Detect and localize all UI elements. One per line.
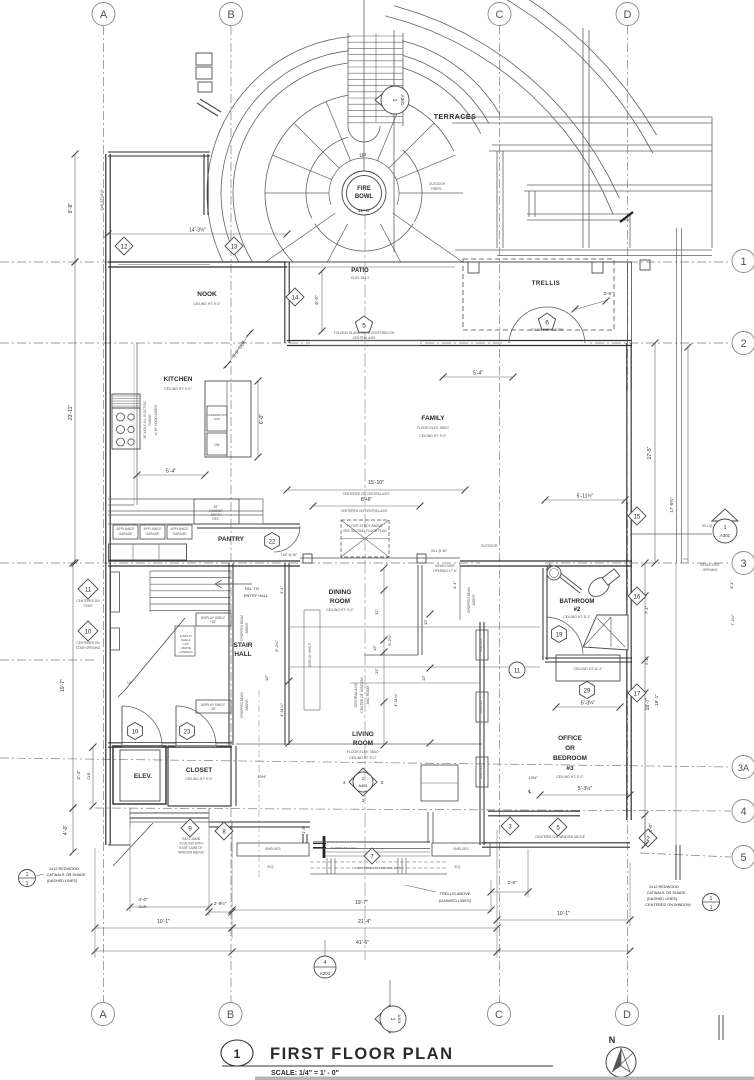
svg-text:TRELLIS ABOVE: TRELLIS ABOVE — [440, 891, 471, 896]
svg-text:6’-0": 6’-0" — [259, 414, 265, 424]
svg-text:CEILING HT: 9'-0": CEILING HT: 9'-0" — [419, 434, 447, 438]
svg-text:5’-11½": 5’-11½" — [577, 493, 594, 500]
svg-text:STAIR OPENING: STAIR OPENING — [76, 646, 101, 650]
svg-text:OPENING: OPENING — [703, 568, 718, 572]
svg-text:w/ 48" HOOD ABOVE: w/ 48" HOOD ABOVE — [154, 405, 158, 436]
svg-text:12": 12" — [421, 674, 426, 680]
svg-text:CLOSET: CLOSET — [186, 767, 212, 774]
svg-text:1: 1 — [724, 525, 727, 531]
svg-text:BOWL: BOWL — [355, 194, 374, 200]
svg-text:29: 29 — [584, 688, 591, 694]
svg-text:D: D — [623, 1009, 631, 1021]
svg-text:CENTRAL AXIS: CENTRAL AXIS — [354, 682, 358, 707]
svg-text:N: N — [609, 1035, 616, 1045]
svg-text:4: 4 — [740, 806, 746, 818]
svg-text:TRELLIS: TRELLIS — [532, 281, 561, 287]
svg-text:5’-4": 5’-4" — [473, 371, 483, 377]
svg-text:OPENING ±7’-6": OPENING ±7’-6" — [433, 569, 457, 573]
svg-text:4’-0": 4’-0" — [648, 823, 653, 833]
svg-text:CATWALK OR SHADE: CATWALK OR SHADE — [647, 891, 686, 895]
svg-text:11: 11 — [85, 587, 92, 593]
svg-text:LIVING: LIVING — [352, 731, 374, 738]
svg-text:SHELVES: SHELVES — [265, 847, 281, 851]
svg-text:1: 1 — [710, 905, 713, 911]
svg-text:SHELVES: SHELVES — [453, 847, 469, 851]
svg-text:5’-4": 5’-4" — [166, 469, 176, 475]
svg-text:A: A — [100, 9, 108, 21]
svg-text:FLOOR ELEV: 585.0': FLOOR ELEV: 585.0' — [417, 426, 450, 430]
svg-text:7’-1": 7’-1" — [644, 605, 649, 614]
svg-text:APPLIANCE: APPLIANCE — [144, 527, 162, 531]
svg-text:ENTRY HALL: ENTRY HALL — [244, 593, 269, 598]
svg-text:DROPPED BEAM: DROPPED BEAM — [240, 692, 244, 718]
svg-text:GARAGE: GARAGE — [146, 532, 160, 536]
svg-text:1: 1 — [740, 256, 746, 268]
svg-text:13: 13 — [231, 244, 238, 250]
svg-text:CLR.: CLR. — [138, 904, 147, 909]
svg-text:CENTERED ON WINDOW ABOVE: CENTERED ON WINDOW ABOVE — [535, 835, 585, 839]
svg-text:FLOOR STUDY ABOVE: FLOOR STUDY ABOVE — [347, 524, 383, 528]
svg-text:7’-1¼": 7’-1¼" — [730, 614, 735, 626]
svg-text:STAIR: STAIR — [83, 604, 93, 608]
svg-text:+36": +36" — [210, 620, 217, 624]
svg-text:TO ALIGN WITH: TO ALIGN WITH — [179, 842, 203, 846]
svg-text:GARAGE: GARAGE — [173, 532, 187, 536]
svg-text:BEAM OVER: BEAM OVER — [436, 564, 456, 568]
svg-text:DISPLAY SHELF: DISPLAY SHELF — [308, 643, 312, 667]
svg-text:14: 14 — [292, 295, 299, 301]
svg-text:10½": 10½" — [528, 775, 538, 780]
svg-text:EAST JAMB: EAST JAMB — [182, 837, 200, 841]
svg-text:1: 1 — [26, 881, 29, 887]
svg-text:SHELVES: SHELVES — [479, 765, 483, 779]
svg-text:CEILING HT: 9'-0": CEILING HT: 9'-0" — [193, 302, 221, 306]
svg-text:CENTER OF WINDOW: CENTER OF WINDOW — [360, 677, 364, 713]
svg-text:8’+6": 8’+6" — [361, 497, 373, 503]
svg-text:CEILING HT: 9'-0": CEILING HT: 9'-0" — [326, 608, 354, 612]
svg-text:5: 5 — [362, 323, 366, 330]
svg-text:ROOM: ROOM — [330, 598, 350, 605]
svg-text:EAST JAMB OF: EAST JAMB OF — [180, 846, 203, 850]
svg-text:CENTERED ON WINDOW: CENTERED ON WINDOW — [645, 903, 691, 907]
svg-text:4: 4 — [324, 960, 327, 966]
svg-text:D: D — [624, 9, 632, 21]
svg-text:TILE @ 36": TILE @ 36" — [281, 553, 297, 557]
svg-text:B: B — [227, 1009, 234, 1021]
svg-text:CROPPED BEAM: CROPPED BEAM — [240, 615, 244, 641]
svg-text:DN- TO: DN- TO — [245, 586, 259, 591]
svg-text:5’-2¼": 5’-2¼" — [274, 640, 279, 652]
svg-text:2’-9½": 2’-9½" — [214, 900, 227, 906]
svg-text:6: 6 — [545, 320, 549, 327]
svg-text:#2: #2 — [574, 607, 581, 613]
svg-text:LANDING: LANDING — [179, 650, 193, 654]
svg-text:23: 23 — [184, 729, 191, 735]
svg-text:FIRST FLOOR PLAN: FIRST FLOOR PLAN — [270, 1045, 454, 1063]
svg-text:DINING: DINING — [329, 589, 352, 596]
svg-text:4’-4": 4’-4" — [76, 770, 81, 780]
svg-text:CENTERED ON CENTRAL AXIS: CENTERED ON CENTRAL AXIS — [355, 866, 400, 870]
svg-text:CENTRAL AXIS: CENTRAL AXIS — [353, 336, 376, 340]
svg-text:A: A — [99, 1009, 107, 1021]
svg-text:CENTERED ON CENTRAL AXIS: CENTERED ON CENTRAL AXIS — [343, 492, 390, 496]
svg-text:ABOVE: ABOVE — [472, 595, 476, 606]
svg-text:36" WOLF ALL-ELECTRIC: 36" WOLF ALL-ELECTRIC — [143, 400, 147, 439]
svg-text:A301: A301 — [400, 95, 405, 106]
svg-text:3’-5": 3’-5" — [603, 291, 613, 296]
svg-text:1’-6": 1’-6" — [301, 825, 306, 834]
svg-text:FIRE: FIRE — [357, 186, 371, 192]
svg-text:(DASHED LINES): (DASHED LINES) — [647, 897, 678, 901]
svg-text:HALL: HALL — [234, 651, 251, 658]
svg-text:OUTDOOR: OUTDOOR — [429, 182, 446, 186]
svg-text:C: C — [495, 1009, 503, 1021]
svg-text:1: 1 — [234, 1047, 241, 1061]
svg-text:16: 16 — [634, 594, 641, 600]
svg-text:EQ.: EQ. — [455, 864, 462, 869]
svg-text:1: 1 — [389, 1018, 395, 1021]
svg-text:CEILING HT: 9'-0": CEILING HT: 9'-0" — [164, 387, 192, 391]
svg-text:CATWALK OR SHADE: CATWALK OR SHADE — [47, 873, 86, 877]
svg-text:17: 17 — [634, 691, 641, 697]
svg-text:12": 12" — [374, 608, 379, 614]
svg-text:SCALE: 1/4" = 1’ - 0": SCALE: 1/4" = 1’ - 0" — [271, 1070, 339, 1077]
svg-text:(DASHED LINES): (DASHED LINES) — [439, 898, 472, 903]
svg-text:17’-5": 17’-5" — [647, 446, 653, 459]
svg-text:SHELVES: SHELVES — [479, 638, 483, 652]
svg-text:21’-4": 21’-4" — [358, 919, 371, 925]
svg-text:17’-0¾": 17’-0¾" — [669, 497, 674, 513]
svg-text:ELEV: 594.3: ELEV: 594.3 — [351, 276, 369, 280]
svg-text:FOLDING GL. DOORS: FOLDING GL. DOORS — [531, 328, 564, 332]
svg-text:12": 12" — [423, 618, 428, 624]
svg-text:#3: #3 — [566, 765, 574, 772]
svg-text:ABOVE: ABOVE — [245, 700, 249, 711]
svg-text:A301: A301 — [397, 1014, 402, 1024]
svg-text:-36": -36" — [210, 707, 216, 711]
svg-text:12": 12" — [264, 674, 269, 680]
svg-text:4’-1": 4’-1" — [452, 580, 457, 589]
svg-text:12": 12" — [374, 667, 379, 673]
svg-text:5’-2¼": 5’-2¼" — [387, 634, 392, 646]
svg-text:OUTDOOR: OUTDOOR — [481, 544, 498, 548]
svg-text:4’-0": 4’-0" — [63, 825, 69, 835]
svg-text:41’-6": 41’-6" — [356, 940, 369, 946]
svg-text:5: 5 — [740, 852, 746, 864]
svg-text:BATHROOM: BATHROOM — [560, 599, 595, 605]
svg-text:KITCHEN: KITCHEN — [164, 376, 193, 383]
svg-text:2x12 REDWOOD: 2x12 REDWOOD — [649, 885, 679, 889]
svg-text:4’-0": 4’-0" — [138, 897, 148, 902]
svg-text:10: 10 — [132, 729, 139, 735]
svg-text:FLOOR ELEV: 585.0': FLOOR ELEV: 585.0' — [347, 750, 380, 754]
svg-text:2’-9": 2’-9" — [507, 880, 517, 885]
svg-text:12: 12 — [121, 244, 128, 250]
svg-text:10: 10 — [85, 629, 92, 635]
svg-text:8’-8": 8’-8" — [68, 203, 74, 213]
svg-text:2x8 STUDS: 2x8 STUDS — [99, 189, 104, 210]
svg-text:4’-1": 4’-1" — [729, 580, 734, 589]
svg-text:APPLIANCE: APPLIANCE — [171, 527, 189, 531]
svg-text:1: 1 — [391, 98, 397, 101]
svg-text:19’-7": 19’-7" — [355, 900, 368, 906]
svg-text:EQ.: EQ. — [268, 864, 275, 869]
svg-text:A401: A401 — [358, 783, 368, 788]
svg-text:REF.: REF. — [213, 517, 220, 521]
svg-text:SLOPED TILE SILL: SLOPED TILE SILL — [330, 846, 357, 850]
svg-text:2: 2 — [740, 338, 746, 350]
svg-text:4’-1": 4’-1" — [279, 585, 284, 594]
svg-text:PATIO: PATIO — [351, 268, 369, 274]
svg-text:6’-5": 6’-5" — [314, 295, 319, 305]
svg-text:12": 12" — [372, 644, 377, 650]
svg-text:10’-1": 10’-1" — [557, 911, 570, 917]
svg-text:SHELVES: SHELVES — [479, 700, 483, 714]
svg-text:AND ROOM: AND ROOM — [366, 686, 370, 705]
svg-text:4’-11¼": 4’-11¼" — [279, 703, 284, 717]
svg-text:B: B — [227, 9, 234, 21]
svg-text:1: 1 — [26, 872, 29, 878]
svg-text:BEDROOM: BEDROOM — [553, 755, 587, 762]
svg-text:15: 15 — [634, 514, 641, 520]
svg-text:23’-11": 23’-11" — [68, 405, 74, 421]
svg-text:OFFICE: OFFICE — [558, 735, 582, 742]
svg-text:SINK: SINK — [214, 417, 221, 421]
svg-text:APPLIANCE: APPLIANCE — [117, 527, 135, 531]
svg-text:22: 22 — [269, 539, 276, 545]
svg-text:1: 1 — [710, 896, 713, 902]
svg-text:FIREPL.: FIREPL. — [431, 187, 443, 191]
svg-text:RANGE: RANGE — [148, 414, 152, 425]
svg-text:A302: A302 — [720, 533, 730, 538]
svg-text:(DASHED LINES): (DASHED LINES) — [47, 879, 78, 883]
svg-text:CEILING HT: 9'-0": CEILING HT: 9'-0" — [349, 756, 377, 760]
svg-text:3A: 3A — [738, 763, 749, 773]
svg-text:ROOM: ROOM — [353, 740, 373, 747]
svg-text:DROPPED BEAM: DROPPED BEAM — [467, 587, 471, 613]
svg-text:CENTERED ON CENTRAL AXIS: CENTERED ON CENTRAL AXIS — [341, 509, 388, 513]
svg-text:15’-10": 15’-10" — [368, 480, 384, 486]
svg-text:CEILING HT: 8'-1": CEILING HT: 8'-1" — [563, 615, 591, 619]
svg-text:41'+6": 41'+6" — [358, 208, 371, 213]
svg-text:SILL @ 36": SILL @ 36" — [431, 549, 447, 553]
svg-text:CEILING HT: 9'-0": CEILING HT: 9'-0" — [556, 775, 584, 779]
svg-text:2x12 REDWOOD: 2x12 REDWOOD — [49, 867, 79, 871]
svg-text:FOLDING GLASS DOOR CENTERED ON: FOLDING GLASS DOOR CENTERED ON — [334, 331, 395, 335]
svg-text:STAIR: STAIR — [233, 642, 252, 649]
svg-text:UP: UP — [360, 153, 368, 159]
svg-text:11: 11 — [514, 668, 521, 674]
svg-text:5’-3½": 5’-3½" — [578, 785, 593, 792]
svg-text:19: 19 — [556, 632, 563, 638]
svg-text:19’-1": 19’-1" — [654, 694, 659, 706]
svg-text:PANTRY: PANTRY — [218, 536, 245, 543]
svg-text:UP: UP — [127, 680, 133, 685]
svg-text:DW: DW — [214, 443, 219, 447]
svg-text:18’-7": 18’-7" — [645, 697, 651, 710]
svg-text:4’-11¼": 4’-11¼" — [393, 693, 398, 707]
svg-text:10’-1": 10’-1" — [157, 919, 170, 925]
svg-text:CENTERED ON: CENTERED ON — [76, 641, 100, 645]
svg-text:BEAM OVER: BEAM OVER — [701, 563, 721, 567]
svg-text:OR: OR — [565, 745, 575, 752]
svg-text:3: 3 — [740, 558, 746, 570]
svg-text:CLR: CLR — [87, 772, 91, 780]
svg-text:NOOK: NOOK — [197, 291, 217, 298]
svg-text:ABOVE: ABOVE — [245, 623, 249, 634]
svg-text:19’-7": 19’-7" — [60, 679, 66, 692]
svg-text:CEILING HT: 9'-0": CEILING HT: 9'-0" — [185, 777, 213, 781]
svg-text:ELEV.: ELEV. — [134, 773, 152, 780]
svg-text:GARAGE: GARAGE — [119, 532, 133, 536]
svg-text:CENTERED ON: CENTERED ON — [76, 599, 100, 603]
svg-text:5’-3¼": 5’-3¼" — [581, 701, 596, 707]
svg-text:C: C — [496, 9, 504, 21]
svg-text:10½": 10½" — [257, 774, 267, 779]
svg-text:A201: A201 — [320, 971, 331, 976]
svg-text:SEE SECOND FLOOR PLAN: SEE SECOND FLOOR PLAN — [343, 529, 387, 533]
svg-text:14’-3½": 14’-3½" — [189, 227, 206, 234]
svg-text:FAMILY: FAMILY — [421, 415, 445, 422]
svg-text:CEILING HT: 8'-1": CEILING HT: 8'-1" — [574, 667, 604, 671]
svg-text:WINDOW ABOVE: WINDOW ABOVE — [178, 851, 204, 855]
svg-text:TERRACES: TERRACES — [434, 114, 477, 121]
